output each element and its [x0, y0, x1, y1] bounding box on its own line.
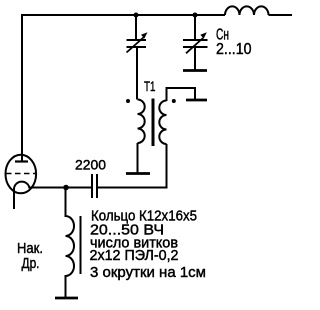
- ground bar at T1 secondary hook: [186, 99, 207, 102]
- node A junction dot: [134, 13, 139, 18]
- wire left vertical (top rail to tube anode): [21, 14, 23, 161]
- ground bar under Cн: [183, 69, 207, 72]
- wire top horizontal right segment: [269, 14, 293, 16]
- svg-text:2х12 ПЭЛ-0,2: 2х12 ПЭЛ-0,2: [90, 248, 179, 264]
- capacitor C1 arrow: [127, 37, 145, 53]
- wire bottom rail left (cathode to C2): [30, 187, 92, 189]
- capacitor Cн variable plates: [183, 40, 208, 47]
- T1 primary phasing dot: [126, 99, 130, 103]
- tube V1 anode plate bar: [15, 160, 28, 162]
- svg-text:2200: 2200: [75, 156, 106, 172]
- wire bottom rail right (C2 to T1): [98, 187, 168, 189]
- capacitor C1 variable plates: [127, 40, 147, 47]
- capacitor C1 variable drop wire: [135, 15, 137, 40]
- transformer T1 primary winding: [138, 100, 145, 144]
- svg-text:2...10: 2...10: [216, 41, 252, 58]
- choke Др winding: [66, 188, 75, 297]
- tube V1 cathode arc and heater lead: [14, 182, 30, 209]
- wire C1 to T1 primary: [136, 47, 138, 100]
- capacitor Cн variable drop wire: [194, 15, 196, 40]
- wire Cн to ground: [194, 47, 196, 70]
- node C junction dot: [63, 185, 69, 191]
- vacuum tube V1 envelope: [5, 155, 36, 194]
- svg-text:3 окрутки на 1см: 3 окрутки на 1см: [90, 265, 206, 281]
- wire T1 secondary top hook: [167, 88, 196, 101]
- T1 secondary phasing dot: [172, 99, 176, 103]
- svg-text:Нак.: Нак.: [17, 241, 43, 257]
- capacitor Cн arrow: [186, 38, 203, 53]
- capacitor C2 2200 plates: [92, 174, 97, 198]
- choke Др core bar: [80, 216, 82, 274]
- tube V1 grid (dashed): [6, 173, 35, 175]
- inductor L1 (antenna coil, 3 bumps): [225, 6, 269, 15]
- svg-text:Т1: Т1: [144, 78, 156, 94]
- ground bar under choke: [55, 297, 78, 300]
- wire top horizontal left segment: [22, 14, 225, 16]
- svg-text:Др.: Др.: [22, 256, 40, 272]
- transformer T1 core: [152, 99, 155, 147]
- wire T1 primary bottom to ground: [137, 143, 139, 173]
- transformer T1 secondary winding: [159, 101, 166, 145]
- wire T1 secondary bottom to bottom rail: [166, 144, 168, 189]
- ground bar under T1 primary: [126, 172, 150, 175]
- node B junction dot: [193, 13, 198, 18]
